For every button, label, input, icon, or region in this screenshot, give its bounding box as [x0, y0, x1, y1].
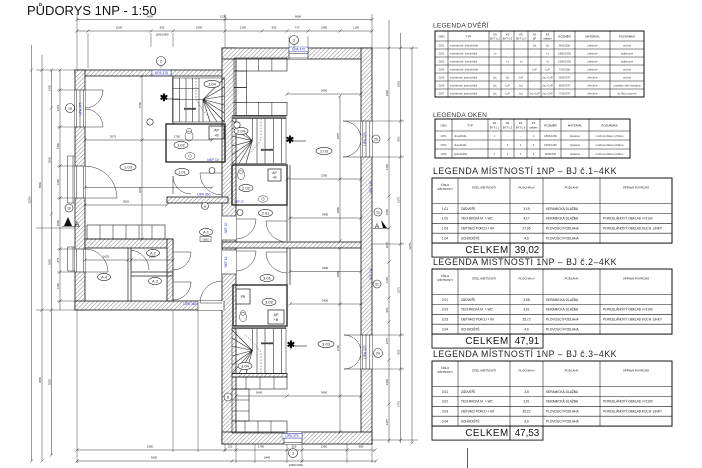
svg-text:exteriérové, dvoukřídlé: exteriérové, dvoukřídlé: [450, 51, 478, 55]
svg-text:2700: 2700: [138, 101, 142, 108]
svg-text:1xP: 1xP: [519, 75, 524, 79]
svg-text:BYT č.2: BYT č.2: [503, 37, 513, 41]
room legend table LEGENDA MÍSTNOSTÍ 1NP &#8211; BJ č.2&#8211;4KK: [432, 269, 672, 334]
window opening top wall right block: [289, 48, 308, 59]
svg-text:exteriérové, jednokřídlé: exteriérové, jednokřídlé: [450, 67, 478, 71]
svg-text:3.03: 3.03: [442, 410, 448, 414]
svg-text:A.4: A.4: [101, 274, 108, 279]
svg-text:1500: 1500: [202, 238, 209, 242]
svg-text:dřevěné: dřevěné: [588, 75, 598, 79]
svg-text:LEGENDA MÍSTNOSTÍ 1NP – BJ: LEGENDA MÍSTNOSTÍ 1NP – BJ č.1–4KK: [433, 166, 617, 176]
door wall D into A.3: [173, 281, 191, 283]
central spine wall: [222, 48, 236, 444]
svg-text:2.02: 2.02: [442, 308, 448, 312]
svg-text:D/06: D/06: [439, 83, 445, 87]
svg-text:-: -: [495, 68, 496, 71]
svg-text:B: B: [204, 204, 206, 208]
svg-text:1450: 1450: [56, 142, 60, 149]
door opening left wall room 1.03: [75, 166, 85, 198]
svg-text:-: -: [521, 52, 522, 55]
svg-text:D/03: D/03: [439, 59, 445, 63]
svg-text:1850: 1850: [336, 206, 340, 213]
svg-text:11250: 11250: [27, 196, 31, 204]
svg-text:prosklení dle investora: prosklení dle investora: [614, 83, 641, 87]
svg-text:2440: 2440: [264, 456, 271, 460]
svg-text:35,72: 35,72: [523, 318, 531, 322]
svg-text:1xL: 1xL: [519, 83, 524, 87]
axis bubble bottom: [289, 449, 298, 458]
svg-text:2c: 2c: [375, 282, 379, 286]
right block right wall: [361, 48, 372, 444]
svg-text:jednokřídlé: jednokřídlé: [453, 152, 468, 156]
partition room1.03|stairs1.04: [172, 76, 174, 124]
left block top wall: [75, 70, 228, 76]
svg-text:AP: AP: [274, 313, 279, 317]
dimension lines right margin: [388, 20, 390, 443]
svg-text:2: 2: [160, 59, 162, 63]
svg-text:PORCELÁNOVÝ OBKLAD v=2100: PORCELÁNOVÝ OBKLAD v=2100: [603, 308, 653, 312]
AP+B box unit3: [268, 310, 284, 324]
svg-text:900: 900: [272, 26, 277, 30]
windows legend table: [435, 119, 630, 158]
wall under stairs 3.04: [232, 374, 287, 378]
svg-text:-: -: [534, 60, 535, 63]
svg-text:UPA 375: UPA 375: [363, 132, 367, 145]
small marker circle stairs 2.04: [234, 122, 240, 128]
svg-text:POZNÁMKA: POZNÁMKA: [601, 124, 617, 128]
svg-text:1625: 1625: [103, 255, 110, 259]
svg-text:TECHNICKÁ M. + WC: TECHNICKÁ M. + WC: [461, 217, 493, 221]
svg-text:1950: 1950: [56, 219, 60, 226]
svg-text:1450: 1450: [47, 84, 51, 91]
svg-text:-: -: [521, 68, 522, 71]
svg-text:1xL: 1xL: [545, 43, 550, 47]
svg-text:1125: 1125: [385, 277, 389, 283]
svg-text:3400: 3400: [322, 299, 329, 303]
svg-text:-: -: [507, 52, 508, 55]
door left wall into 1.03 lower: [85, 197, 117, 199]
stairs 3.04: [232, 326, 286, 374]
washbasin unit2: [258, 196, 268, 202]
svg-text:O/02: O/02: [441, 143, 447, 147]
svg-text:SCHODIŠTĚ: SCHODIŠTĚ: [461, 236, 480, 241]
axis bubble top right block: [290, 36, 299, 45]
svg-text:LEGENDA MÍSTNOSTÍ 1NP – BJ: LEGENDA MÍSTNOSTÍ 1NP – BJ č.3–4KK: [433, 349, 617, 359]
svg-text:✱: ✱: [287, 340, 296, 351]
svg-text:+B: +B: [214, 134, 219, 138]
svg-text:PLOVOUCÍ PODLAHA: PLOVOUCÍ PODLAHA: [546, 328, 579, 332]
svg-text:BYT č.1: BYT č.1: [490, 126, 500, 130]
svg-text:1xP: 1xP: [505, 91, 510, 95]
svg-text:ÚPRAVA POVRCHŮ: ÚPRAVA POVRCHŮ: [623, 185, 650, 190]
svg-text:1b: 1b: [67, 206, 71, 210]
svg-text:3: 3: [292, 451, 294, 455]
svg-text:AP: AP: [214, 129, 219, 133]
svg-text:770: 770: [295, 26, 300, 30]
svg-text:1100(1400): 1100(1400): [155, 33, 168, 37]
svg-text:1060(1100): 1060(1100): [289, 463, 303, 467]
svg-text:KS: KS: [493, 33, 497, 37]
svg-text:PLOCHA/m²: PLOCHA/m²: [518, 369, 534, 373]
svg-text:1850: 1850: [336, 270, 340, 277]
axis bubble left lower: [65, 204, 73, 212]
svg-text:exteriérové, jednokřídlé: exteriérové, jednokřídlé: [450, 43, 478, 47]
svg-text:1.03: 1.03: [124, 164, 133, 169]
svg-text:do lišty posuvné: do lišty posuvné: [617, 91, 637, 95]
entry door unit3 from corridor: [236, 250, 256, 252]
door opening right wall unit3: [361, 335, 372, 369]
svg-text:MÍSTNOSTI: MÍSTNOSTI: [437, 278, 452, 282]
door opening spine wall unit3 entry: [222, 250, 236, 274]
svg-text:1050: 1050: [385, 208, 389, 215]
svg-text:OZN: OZN: [438, 35, 444, 39]
svg-text:LEGENDA OKEN: LEGENDA OKEN: [433, 112, 487, 119]
svg-text:15x164x280: 15x164x280: [261, 343, 274, 345]
svg-text:dřevěné: dřevěné: [588, 91, 598, 95]
svg-text:MÍSTNOSTI: MÍSTNOSTI: [437, 187, 452, 191]
interior wall left of corridor A.1: [167, 239, 173, 301]
svg-text:980: 980: [359, 445, 364, 449]
svg-text:3,68: 3,68: [523, 298, 529, 302]
svg-text:1825: 1825: [396, 80, 400, 87]
svg-text:1450: 1450: [385, 378, 389, 385]
svg-text:1075: 1075: [385, 241, 389, 248]
svg-text:POZNÁMKA: POZNÁMKA: [619, 35, 635, 39]
svg-text:PODLAHA: PODLAHA: [565, 369, 579, 373]
svg-text:1275: 1275: [385, 337, 389, 344]
svg-text:KS: KS: [546, 33, 550, 37]
svg-text:D/07: D/07: [439, 91, 445, 95]
svg-text:3.02: 3.02: [265, 299, 274, 304]
svg-text:1080: 1080: [321, 26, 328, 30]
svg-text:1600: 1600: [149, 255, 156, 259]
svg-text:KS: KS: [519, 33, 523, 37]
svg-text:1xL: 1xL: [493, 83, 498, 87]
svg-text:PODLAHA: PODLAHA: [565, 277, 579, 281]
svg-text:900: 900: [396, 136, 400, 141]
svg-text:ROZMĚR: ROZMĚR: [558, 34, 571, 39]
exterior detail lines left wall lower: [67, 247, 69, 271]
svg-text:plastové: plastové: [587, 43, 598, 47]
section mark A right: [374, 208, 382, 216]
french door left wall into 1.03: [85, 89, 103, 91]
svg-text:3195: 3195: [321, 174, 328, 178]
door opening corridor A.1 exterior entry: [198, 301, 224, 310]
left block bottom wall: [75, 301, 236, 310]
svg-text:1500/1250: 1500/1250: [544, 143, 557, 147]
svg-text:3,8: 3,8: [524, 390, 529, 394]
svg-text:-: -: [534, 52, 535, 55]
svg-text:SP: SP: [533, 37, 537, 41]
partition A.4|A.2 wall: [127, 248, 129, 301]
stairs 1.04: [173, 78, 225, 122]
svg-text:CELKEM: CELKEM: [465, 245, 508, 256]
svg-text:UPA 360: UPA 360: [197, 193, 210, 197]
svg-text:otočné: otočné: [623, 67, 632, 71]
svg-text:KS: KS: [506, 33, 510, 37]
svg-text:plastové: plastové: [587, 51, 598, 55]
svg-text:47,53: 47,53: [515, 428, 540, 439]
svg-text:BYT č.3: BYT č.3: [516, 126, 526, 130]
svg-text:3.04: 3.04: [442, 420, 448, 424]
svg-text:-: -: [521, 44, 522, 47]
svg-text:1750: 1750: [174, 135, 181, 139]
svg-text:3,91: 3,91: [523, 308, 529, 312]
section mark A left: [64, 217, 72, 226]
svg-text:2.03: 2.03: [442, 318, 448, 322]
bathroom core unit2 (2.02): [232, 165, 287, 205]
svg-text:1xP: 1xP: [532, 67, 537, 71]
svg-text:PLOVOUCÍ PODLAHA: PLOVOUCÍ PODLAHA: [546, 318, 579, 322]
svg-text:OBÝVACÍ POKOJ + KK: OBÝVACÍ POKOJ + KK: [461, 227, 495, 231]
svg-text:TECHNICKÁ M. + WC: TECHNICKÁ M. + WC: [461, 308, 493, 312]
svg-text:PLOCHA/m²: PLOCHA/m²: [518, 277, 534, 281]
svg-text:3.03: 3.03: [322, 341, 331, 346]
svg-text:MATERIÁL: MATERIÁL: [585, 35, 600, 39]
extension lines right: [372, 47, 418, 49]
svg-text:ÚČEL MÍSTNOSTI: ÚČEL MÍSTNOSTI: [472, 185, 496, 190]
room legend table LEGENDA MÍSTNOSTÍ 1NP &#8211; BJ č.3&#8211;4KK: [432, 361, 672, 426]
svg-text:O/01: O/01: [441, 134, 447, 138]
svg-text:MATERIÁL: MATERIÁL: [568, 124, 583, 128]
window/french-door opening left wall: [75, 90, 85, 127]
svg-text:1.01: 1.01: [442, 207, 448, 211]
door corridor A.1 to 1.01: [200, 172, 222, 174]
svg-text:CELKEM: CELKEM: [465, 428, 508, 439]
svg-text:4,17: 4,17: [523, 217, 529, 221]
svg-text:2400: 2400: [256, 391, 263, 395]
svg-text:BYT č.1: BYT č.1: [490, 37, 500, 41]
svg-text:plastové: plastové: [570, 134, 581, 138]
room label 1.04: [204, 80, 220, 87]
svg-text:3.01: 3.01: [442, 390, 448, 394]
svg-text:1.02: 1.02: [442, 217, 448, 221]
svg-text:2075: 2075: [110, 135, 117, 139]
svg-text:1.04: 1.04: [208, 81, 217, 86]
svg-text:1800/2300: 1800/2300: [558, 51, 571, 55]
svg-text:NEF 10: NEF 10: [224, 256, 228, 267]
svg-text:UPA 375: UPA 375: [285, 434, 298, 438]
svg-text:NEF 10: NEF 10: [224, 222, 228, 233]
door opening left wall room A.4: [75, 249, 85, 272]
svg-text:3950: 3950: [38, 376, 42, 383]
room label 2.01: [259, 209, 273, 216]
svg-text:ZÁDVEŘÍ: ZÁDVEŘÍ: [461, 206, 475, 211]
svg-text:UPA 370: UPA 370: [292, 48, 305, 52]
room label A.1: [200, 228, 213, 235]
svg-text:1.04: 1.04: [442, 237, 448, 241]
svg-text:interiérové, jednokřídlé: interiérové, jednokřídlé: [450, 91, 478, 95]
svg-text:ZÁDVEŘÍ: ZÁDVEŘÍ: [461, 389, 475, 394]
door wall E between A.4 and A.2: [130, 250, 132, 270]
svg-text:1375: 1375: [56, 104, 60, 111]
svg-text:ROZMĚR: ROZMĚR: [544, 123, 557, 128]
svg-text:2d: 2d: [376, 351, 380, 355]
svg-text:ÚČEL MÍSTNOSTI: ÚČEL MÍSTNOSTI: [472, 368, 496, 373]
svg-text:dvoukřídlé: dvoukřídlé: [454, 143, 467, 147]
svg-text:ÚČEL MÍSTNOSTI: ÚČEL MÍSTNOSTI: [472, 276, 496, 281]
svg-text:CELKEM: CELKEM: [465, 336, 508, 347]
svg-text:2.01: 2.01: [442, 298, 448, 302]
svg-text:D/05: D/05: [439, 75, 445, 79]
svg-text:900: 900: [385, 307, 389, 312]
svg-text:1150: 1150: [385, 164, 389, 170]
room label A.2: [147, 249, 160, 256]
svg-text:A.1: A.1: [203, 229, 210, 234]
interior wall below room 1.01: [167, 197, 228, 203]
svg-text:1500/2300: 1500/2300: [558, 59, 571, 63]
svg-text:3400: 3400: [322, 266, 329, 270]
svg-text:2175: 2175: [396, 196, 400, 203]
svg-text:UPA 375: UPA 375: [363, 345, 367, 358]
small marker circle on wall below 1.01: [202, 203, 209, 210]
kitchen counter unit3: [232, 377, 287, 389]
svg-text:-: -: [495, 44, 496, 47]
svg-text:PORCELÁNOVÝ OBKLAD KUCH. LINKY: PORCELÁNOVÝ OBKLAD KUCH. LINKY: [603, 227, 663, 231]
svg-text:800/1970: 800/1970: [559, 83, 571, 87]
svg-text:TECHNICKÁ M. + WC: TECHNICKÁ M. + WC: [461, 400, 493, 404]
room label 1.01: [175, 168, 189, 175]
svg-text:3400: 3400: [321, 391, 328, 395]
svg-text:plastové: plastové: [570, 152, 581, 156]
svg-text:3.04: 3.04: [241, 363, 250, 368]
washbasin unit1: [185, 153, 195, 160]
svg-text:2.03: 2.03: [320, 148, 329, 153]
svg-text:3.02: 3.02: [442, 400, 448, 404]
kitchen counter unit3 bottom row: [232, 421, 287, 433]
svg-text:3400: 3400: [322, 213, 329, 217]
extension lines top: [288, 36, 290, 48]
svg-text:1.01: 1.01: [178, 169, 187, 174]
svg-text:3,91: 3,91: [523, 400, 529, 404]
svg-text:1800/1250: 1800/1250: [544, 134, 557, 138]
svg-text:5550: 5550: [47, 378, 51, 385]
svg-text:47,91: 47,91: [515, 336, 540, 347]
svg-text:LEGENDA MÍSTNOSTÍ 1NP – BJ: LEGENDA MÍSTNOSTÍ 1NP – BJ č.2–4KK: [433, 257, 617, 267]
svg-text:PORCELÁNOVÝ OBKLAD KUCH. LINKY: PORCELÁNOVÝ OBKLAD KUCH. LINKY: [603, 318, 663, 322]
svg-text:+B: +B: [274, 318, 279, 322]
kitchen counter unit1: [87, 225, 165, 239]
svg-text:otočné: otočné: [623, 75, 632, 79]
washing machine unit3: [236, 289, 250, 304]
svg-text:3400: 3400: [321, 89, 328, 93]
blue label UPA 375 top-left window: [152, 71, 171, 76]
svg-text:NEF 150: NEF 150: [369, 181, 373, 193]
exterior detail lines left wall upper: [67, 156, 69, 203]
room label 1.02: [174, 141, 188, 148]
svg-text:15x164x280: 15x164x280: [184, 109, 197, 111]
svg-text:balkónové: balkónové: [621, 59, 634, 63]
AP+B box unit1: [209, 126, 224, 139]
svg-text:KERAMICKÁ DLAŽBA: KERAMICKÁ DLAŽBA: [546, 206, 579, 211]
svg-text:1230: 1230: [220, 15, 227, 19]
svg-text:1xL: 1xL: [493, 75, 498, 79]
svg-text:900/1970: 900/1970: [559, 75, 571, 79]
french door right wall unit2: [343, 120, 361, 122]
svg-text:UPA 375: UPA 375: [155, 71, 168, 75]
stairs 2.04: [232, 116, 286, 164]
room label A.3: [149, 277, 162, 284]
svg-text:700/1970: 700/1970: [559, 91, 571, 95]
kitchen counter unit2 top row: [234, 58, 287, 71]
svg-text:plastové: plastové: [587, 59, 598, 63]
svg-text:1775: 1775: [396, 400, 400, 407]
door 3.01 to 3.03: [266, 251, 287, 253]
svg-text:2b: 2b: [374, 137, 378, 141]
svg-text:KS: KS: [493, 121, 497, 125]
stray vertical line bottom right: [467, 448, 469, 468]
svg-text:-: -: [507, 135, 508, 138]
svg-text:možnost dělení příčkou: možnost dělení příčkou: [596, 134, 624, 138]
svg-text:11750: 11750: [408, 242, 412, 250]
svg-text:NEF 10: NEF 10: [207, 158, 219, 162]
toilet unit3: [239, 312, 246, 321]
svg-text:A: A: [375, 223, 380, 230]
axis bubble right mid: [373, 280, 381, 288]
AP+B box unit2: [268, 169, 281, 181]
svg-text:AP: AP: [272, 171, 277, 175]
svg-text:KERAMICKÁ DLAŽBA: KERAMICKÁ DLAŽBA: [546, 307, 579, 312]
svg-text:plastové: plastové: [570, 143, 581, 147]
svg-text:možnost dělení příčkou: možnost dělení příčkou: [596, 152, 624, 156]
svg-text:-: -: [534, 76, 535, 79]
room label 1.03: [120, 163, 136, 170]
svg-text:35,22: 35,22: [523, 410, 531, 414]
svg-text:900/1000: 900/1000: [545, 152, 557, 156]
svg-text:2.04: 2.04: [442, 328, 448, 332]
svg-text:PŮDORYS 1NP - 1:50: PŮDORYS 1NP - 1:50: [27, 3, 157, 18]
svg-text:dvoukřídlé: dvoukřídlé: [454, 134, 467, 138]
svg-text:NEF 150: NEF 150: [369, 268, 373, 280]
svg-text:6600: 6600: [295, 15, 302, 19]
svg-text:3625: 3625: [123, 200, 130, 204]
svg-text:D/04: D/04: [439, 67, 445, 71]
dimension lines left margin: [31, 45, 33, 461]
svg-text:OBÝVACÍ POKOJ + KK: OBÝVACÍ POKOJ + KK: [461, 318, 495, 322]
svg-text:OZN: OZN: [440, 124, 446, 128]
svg-text:5180: 5180: [147, 445, 154, 449]
svg-text:UPA 375: UPA 375: [79, 102, 83, 115]
room label 3.01: [260, 274, 274, 281]
svg-text:KERAMICKÁ DLAŽBA: KERAMICKÁ DLAŽBA: [546, 216, 579, 221]
svg-text:1175: 1175: [385, 419, 389, 425]
partition 3.01|3.03 wall: [286, 248, 288, 285]
svg-text:NEF 15: NEF 15: [234, 200, 244, 204]
svg-text:KS: KS: [533, 33, 537, 37]
svg-text:1.03: 1.03: [442, 227, 448, 231]
svg-text:D/01: D/01: [439, 43, 445, 47]
svg-text:D/02: D/02: [439, 51, 445, 55]
svg-text:interiérové, jednokřídlé: interiérové, jednokřídlé: [450, 75, 478, 79]
svg-text:2xL+1xP: 2xL+1xP: [542, 83, 553, 87]
svg-text:27,06: 27,06: [523, 227, 531, 231]
svg-text:otočné: otočné: [623, 43, 632, 47]
interior dimension lines: [85, 139, 212, 141]
svg-text:1xL+1xP: 1xL+1xP: [529, 91, 540, 95]
french door opening right wall unit2: [361, 121, 372, 157]
svg-text:TYP: TYP: [466, 35, 472, 39]
svg-text:KERAMICKÁ DLAŽBA: KERAMICKÁ DLAŽBA: [546, 389, 579, 394]
svg-text:1300: 1300: [240, 26, 247, 30]
blue label UPA 375 bottom window: [282, 434, 302, 439]
svg-text:+B: +B: [272, 176, 277, 180]
svg-text:3,19: 3,19: [523, 207, 529, 211]
dimension lines bottom: [77, 449, 375, 451]
svg-text:možnost dělení příčkou: možnost dělení příčkou: [596, 143, 624, 147]
svg-text:ÚPRAVA POVRCHŮ: ÚPRAVA POVRCHŮ: [623, 368, 650, 373]
svg-text:1xL: 1xL: [532, 43, 537, 47]
svg-text:525: 525: [292, 445, 297, 449]
